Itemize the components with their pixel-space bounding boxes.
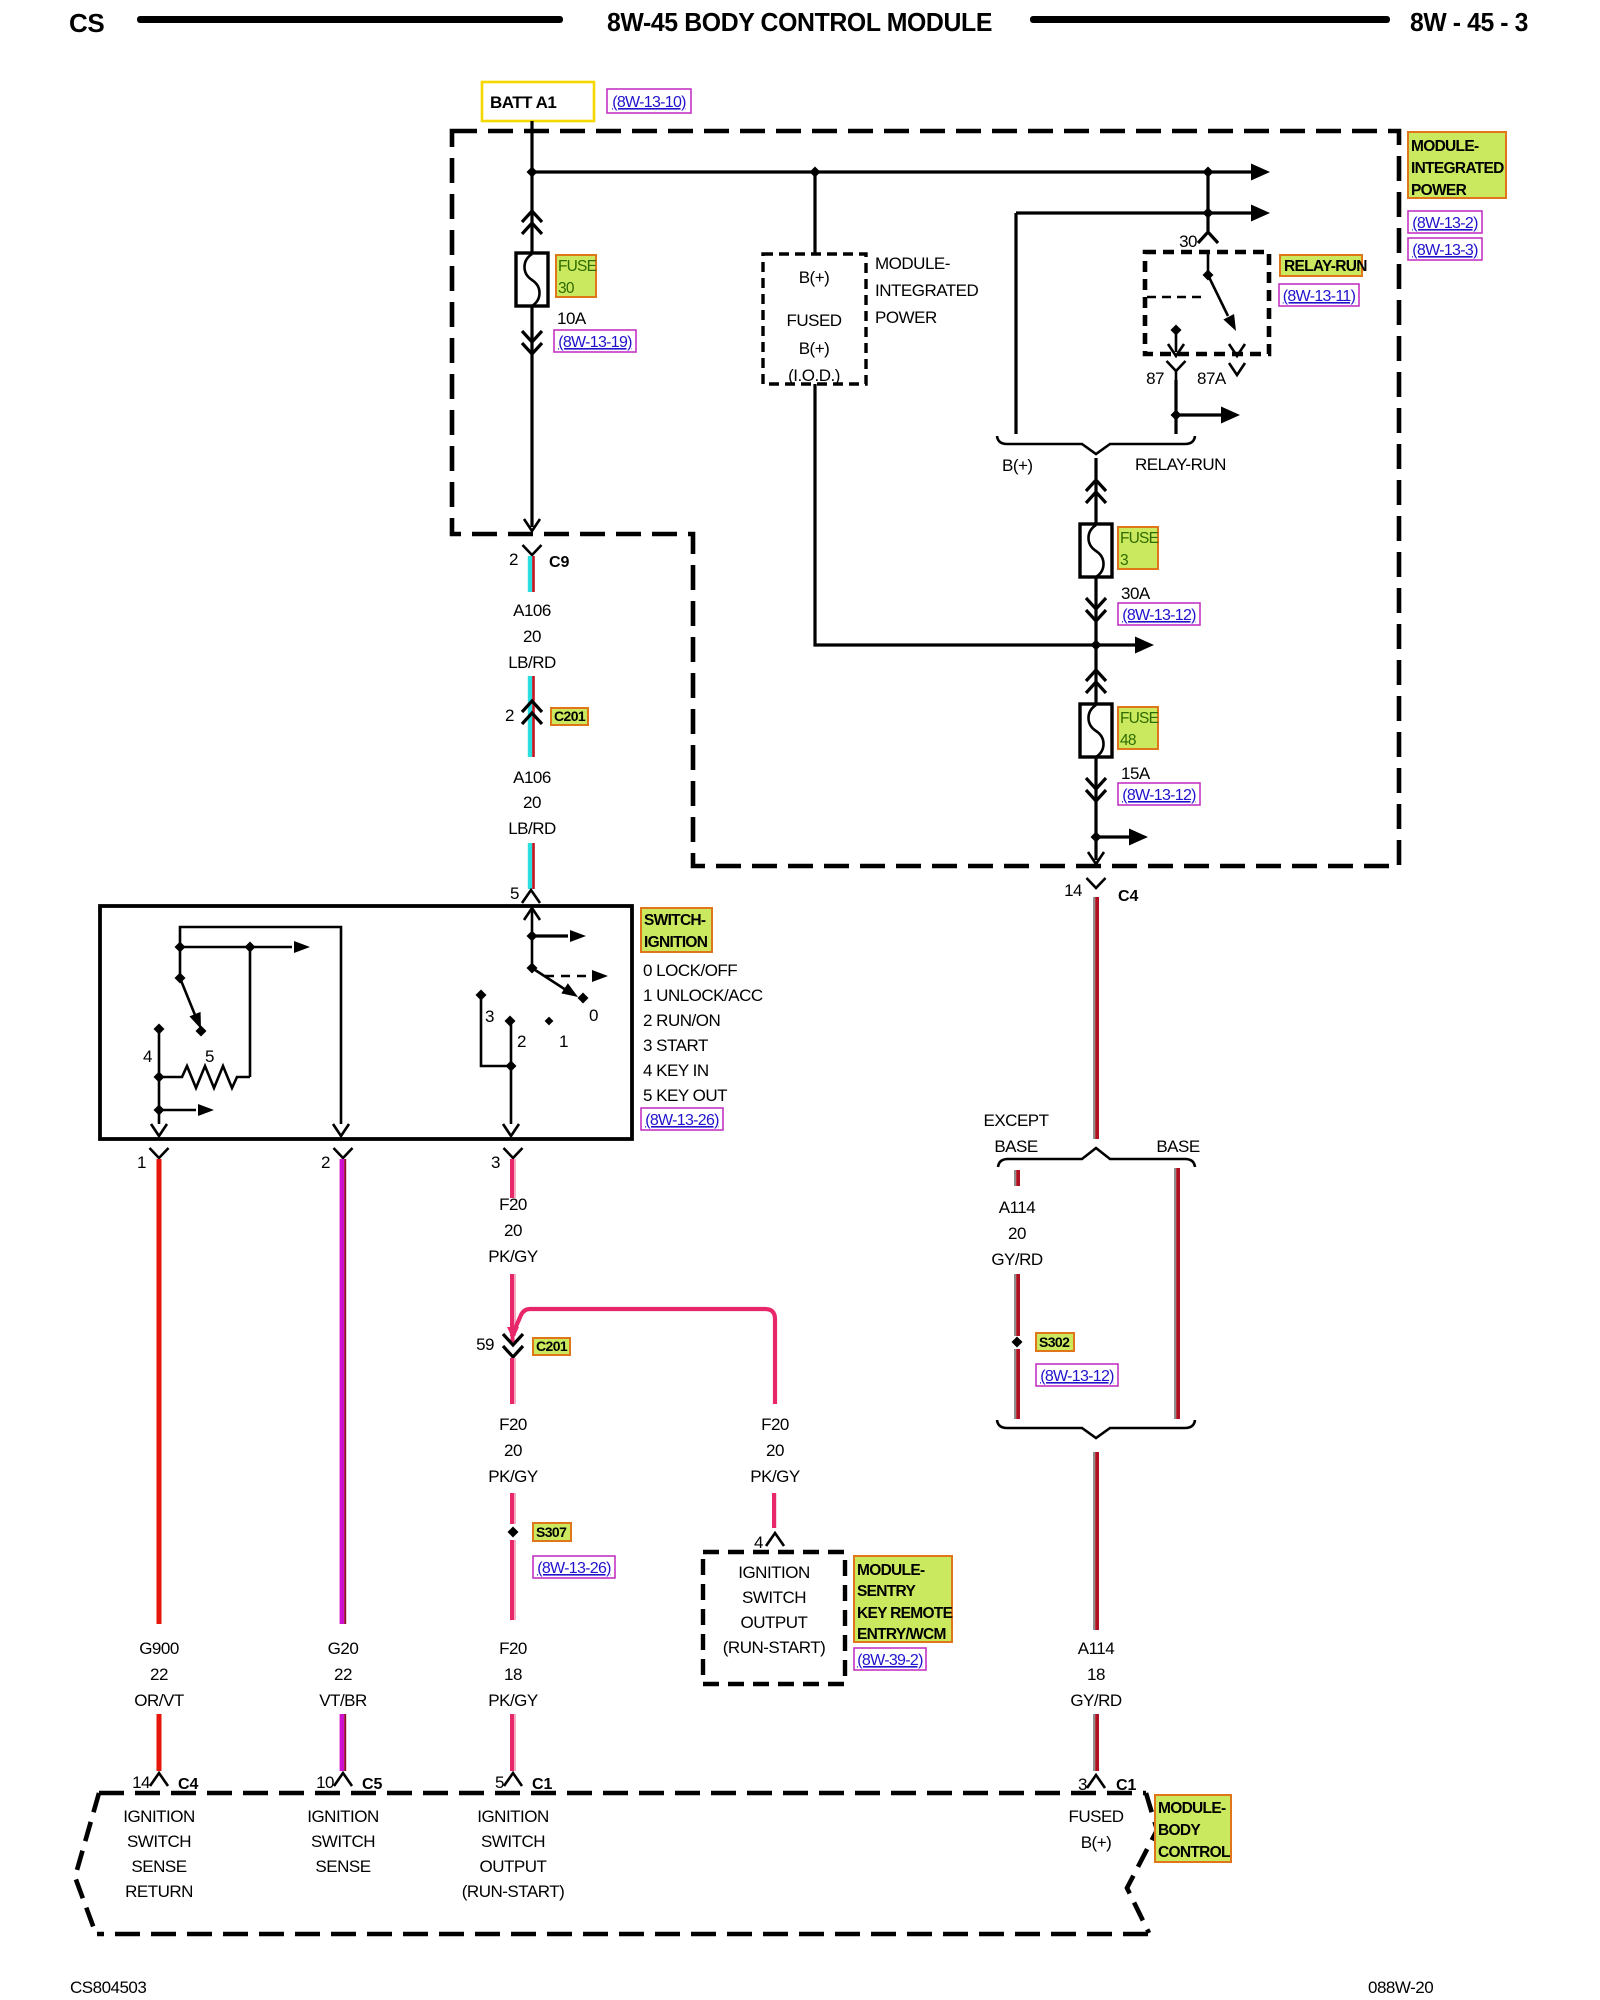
wire label F20 18 PK/GY <box>488 1639 538 1710</box>
wire label A114 20 GY/RD <box>991 1198 1043 1269</box>
switch position 2 <box>505 1016 527 1052</box>
svg-text:22: 22 <box>334 1665 352 1684</box>
svg-text:5: 5 <box>510 884 519 903</box>
svg-text:MODULE-: MODULE- <box>1158 1800 1226 1817</box>
svg-text:BODY: BODY <box>1158 1822 1201 1839</box>
svg-text:(8W-13-12): (8W-13-12) <box>1040 1368 1114 1385</box>
svg-text:PK/GY: PK/GY <box>488 1247 538 1266</box>
svg-text:INTEGRATED: INTEGRATED <box>875 281 979 300</box>
svg-text:10A: 10A <box>557 309 587 328</box>
svg-text:BASE: BASE <box>994 1137 1038 1156</box>
wire G900 OR/VT upper <box>157 1159 162 1624</box>
link 8W-13-12 fuse 3 <box>1118 603 1200 625</box>
svg-text:C4: C4 <box>178 1776 199 1793</box>
svg-text:GY/RD: GY/RD <box>991 1250 1043 1269</box>
module pin caption ignition switch sense <box>307 1807 379 1876</box>
module sentry key box <box>703 1552 845 1684</box>
wire A114 GY/RD except-base seg1 <box>1014 1170 1020 1186</box>
connector C1 pin 5 module <box>495 1773 553 1793</box>
svg-text:MODULE-: MODULE- <box>857 1562 925 1579</box>
ignition switch wiper <box>527 963 589 1004</box>
header label CS <box>69 8 104 38</box>
key-in fixed contact pin 4 <box>154 1024 165 1125</box>
fuse 3 rating 30A <box>1121 584 1151 603</box>
caption module-integrated power <box>875 254 979 327</box>
module pin caption ignition switch sense return <box>123 1807 195 1901</box>
fuse F48 <box>1080 704 1112 757</box>
node label B(+) <box>1002 456 1033 475</box>
svg-text:SENTRY: SENTRY <box>857 1583 916 1600</box>
wire relay pin 30 feed <box>1206 172 1209 232</box>
wire F20 PK/GY seg6 <box>510 1714 516 1771</box>
node label RELAY-RUN <box>1135 455 1226 474</box>
svg-text:14: 14 <box>132 1773 150 1792</box>
header rule right <box>1030 16 1390 23</box>
wire F20 PK/GY seg5 <box>510 1540 516 1620</box>
svg-text:SWITCH: SWITCH <box>311 1832 375 1851</box>
svg-text:2: 2 <box>509 550 518 569</box>
key-in moving contact <box>175 947 207 1037</box>
wire A106 LB/RD segment 1 <box>528 556 535 592</box>
svg-text:RETURN: RETURN <box>125 1882 193 1901</box>
svg-text:3 START: 3 START <box>643 1036 708 1055</box>
svg-text:(8W-13-26): (8W-13-26) <box>645 1112 719 1129</box>
svg-text:C1: C1 <box>1116 1777 1137 1794</box>
link 8W-39-2 <box>854 1648 926 1670</box>
svg-text:A106: A106 <box>513 601 551 620</box>
svg-text:PK/GY: PK/GY <box>488 1467 538 1486</box>
svg-text:22: 22 <box>150 1665 168 1684</box>
svg-text:14: 14 <box>1064 881 1082 900</box>
link 8W-13-26 S307 <box>533 1556 615 1578</box>
link 8W-13-26 switch <box>641 1108 723 1130</box>
connector chevrons below fuse 30 <box>522 331 542 354</box>
pin labels 4 and 5 <box>143 1047 214 1066</box>
svg-text:G20: G20 <box>328 1639 359 1658</box>
switch-ignition box <box>100 906 632 1139</box>
svg-text:1: 1 <box>559 1032 568 1051</box>
svg-text:3: 3 <box>491 1153 500 1172</box>
svg-text:PK/GY: PK/GY <box>488 1691 538 1710</box>
svg-text:1 UNLOCK/ACC: 1 UNLOCK/ACC <box>643 986 763 1005</box>
svg-text:POWER: POWER <box>875 308 937 327</box>
connector chevrons below fuse 48 <box>1086 778 1106 801</box>
svg-text:(8W-13-26): (8W-13-26) <box>537 1560 611 1577</box>
switch pin 2 connector <box>321 1148 353 1172</box>
wire A106 LB/RD segment 3 <box>528 843 535 889</box>
link 8W-13-2 <box>1408 211 1482 233</box>
label MODULE-SENTRY KEY REMOTE ENTRY/WCM <box>854 1556 953 1643</box>
label C201 <box>551 708 588 725</box>
svg-text:18: 18 <box>1087 1665 1105 1684</box>
svg-text:(RUN-START): (RUN-START) <box>462 1882 564 1901</box>
chevron below pin 87A <box>1229 363 1245 375</box>
ignition switch arrow run <box>532 930 586 942</box>
svg-text:C5: C5 <box>362 1776 383 1793</box>
svg-text:(8W-13-11): (8W-13-11) <box>1283 288 1356 305</box>
link 8W-13-12 fuse 48 <box>1118 783 1200 805</box>
wire label G900 22 OR/VT <box>134 1639 184 1710</box>
svg-text:F20: F20 <box>499 1639 527 1658</box>
svg-text:(8W-39-2): (8W-39-2) <box>857 1652 923 1669</box>
relay RELAY-RUN box <box>1145 252 1269 354</box>
label C201 lower <box>533 1338 570 1355</box>
connector chevrons above fuse 30 <box>522 211 542 234</box>
svg-text:48: 48 <box>1120 732 1136 749</box>
svg-text:FUSED: FUSED <box>786 311 841 330</box>
svg-text:30: 30 <box>1179 232 1197 251</box>
svg-text:C201: C201 <box>536 1338 568 1354</box>
svg-text:C1: C1 <box>532 1776 553 1793</box>
svg-text:3: 3 <box>1078 1775 1087 1794</box>
svg-text:C9: C9 <box>549 554 570 571</box>
svg-text:15A: 15A <box>1121 764 1151 783</box>
svg-text:SWITCH: SWITCH <box>127 1832 191 1851</box>
wire label F20 20 PK/GY sentry <box>750 1415 800 1486</box>
connector chevrons above fuse 3 <box>1086 480 1106 503</box>
svg-text:IGNITION: IGNITION <box>307 1807 379 1826</box>
brace sources <box>997 436 1195 454</box>
wire F20 PK/GY seg2 <box>510 1274 516 1336</box>
fuse F3 <box>1080 524 1112 577</box>
svg-text:59: 59 <box>476 1335 494 1354</box>
svg-text:3: 3 <box>1120 552 1128 569</box>
switch pin 1 connector <box>137 1148 169 1172</box>
junction node relay feed <box>1203 208 1214 219</box>
svg-text:FUSE: FUSE <box>558 258 597 275</box>
svg-text:CONTROL: CONTROL <box>1158 1844 1230 1861</box>
svg-text:OUTPUT: OUTPUT <box>741 1613 808 1632</box>
module body control boundary left <box>75 1793 99 1934</box>
splice S307 <box>508 1527 519 1538</box>
switch position 3 <box>476 990 495 1027</box>
svg-text:CS804503: CS804503 <box>70 1978 146 1997</box>
svg-text:EXCEPT: EXCEPT <box>983 1111 1048 1130</box>
ignition switch dashed arrow <box>545 970 608 982</box>
svg-text:F20: F20 <box>499 1195 527 1214</box>
svg-text:CS: CS <box>69 8 104 38</box>
open arrow pin 1 <box>151 1124 167 1136</box>
svg-text:OR/VT: OR/VT <box>134 1691 184 1710</box>
header title <box>607 7 992 37</box>
svg-text:OUTPUT: OUTPUT <box>480 1857 547 1876</box>
svg-text:5: 5 <box>205 1047 214 1066</box>
link 8W-13-10 <box>607 89 691 113</box>
switch pin 3 connector <box>491 1148 523 1172</box>
label MODULE-INTEGRATED POWER <box>1408 132 1506 199</box>
svg-text:S302: S302 <box>1039 1334 1070 1350</box>
svg-text:4 KEY IN: 4 KEY IN <box>643 1061 709 1080</box>
svg-text:BATT A1: BATT A1 <box>490 93 556 112</box>
main power bus wire <box>532 164 1270 181</box>
connector at pin 87 <box>1167 361 1186 380</box>
switch position 0 <box>589 1006 598 1025</box>
svg-text:VT/BR: VT/BR <box>319 1691 367 1710</box>
wire F20 PK/GY sentry seg <box>772 1493 776 1528</box>
svg-text:87: 87 <box>1146 369 1164 388</box>
svg-text:IGNITION: IGNITION <box>477 1807 549 1826</box>
junction node output branch <box>1091 829 1149 846</box>
ignition switch common <box>524 908 540 968</box>
svg-text:B(+): B(+) <box>799 339 830 358</box>
svg-text:2 RUN/ON: 2 RUN/ON <box>643 1011 720 1030</box>
svg-text:20: 20 <box>504 1221 522 1240</box>
wire F20 PK/GY seg4 <box>510 1493 516 1524</box>
fuse 48 rating 15A <box>1121 764 1151 783</box>
svg-text:4: 4 <box>143 1047 152 1066</box>
relay coil line <box>1147 296 1204 299</box>
junction node battery bus <box>527 167 538 178</box>
svg-text:SENSE: SENSE <box>315 1857 370 1876</box>
relay pin 87 <box>1168 325 1184 357</box>
svg-text:A114: A114 <box>1078 1639 1114 1658</box>
svg-text:G900: G900 <box>139 1639 179 1658</box>
svg-text:(8W-13-10): (8W-13-10) <box>612 94 686 111</box>
wire F20 PK/GY seg3 <box>510 1358 516 1404</box>
svg-text:INTEGRATED: INTEGRATED <box>1411 160 1504 177</box>
wire B(+) leg <box>1014 213 1017 434</box>
svg-text:(RUN-START): (RUN-START) <box>723 1638 825 1657</box>
pin label 30 <box>1179 232 1197 251</box>
wire label A106 20 LB/RD <box>508 601 556 672</box>
svg-text:3: 3 <box>485 1007 494 1026</box>
connector C201 pin 2 <box>505 701 542 725</box>
svg-text:20: 20 <box>523 793 541 812</box>
relay common leg <box>1203 252 1214 281</box>
link 8W-13-19 <box>554 330 636 352</box>
connector pin 5 <box>522 890 540 903</box>
svg-text:5: 5 <box>495 1773 504 1792</box>
wire from relay 87 <box>1171 380 1241 434</box>
svg-text:B(+): B(+) <box>1081 1833 1112 1852</box>
connector C4 pin 14 module <box>132 1773 198 1793</box>
svg-text:(8W-13-12): (8W-13-12) <box>1122 787 1196 804</box>
svg-text:MODULE-: MODULE- <box>1411 138 1479 155</box>
switch pin 5 label <box>510 884 519 903</box>
connector C9 pin 2 <box>509 545 570 571</box>
open arrow at C9 <box>524 519 540 531</box>
svg-text:FUSE: FUSE <box>1120 710 1159 727</box>
variant label EXCEPT BASE <box>983 1111 1048 1156</box>
svg-text:C4: C4 <box>1118 888 1139 905</box>
wire A114 GY/RD base seg <box>1174 1168 1180 1419</box>
svg-text:IGNITION: IGNITION <box>123 1807 195 1826</box>
svg-text:20: 20 <box>504 1441 522 1460</box>
connector sentry pin 4 <box>754 1533 784 1552</box>
module body control boundary right <box>1127 1793 1157 1933</box>
switch position legend <box>643 961 763 1105</box>
pink arrow tip at C201 <box>507 1327 519 1342</box>
svg-text:FUSED: FUSED <box>1068 1807 1123 1826</box>
fuse 30 rating 10A <box>557 309 587 328</box>
wire battery feed <box>530 121 533 527</box>
open arrow pin 2 <box>333 1124 349 1136</box>
label FUSE 3 <box>1118 527 1159 569</box>
svg-text:(8W-13-2): (8W-13-2) <box>1412 215 1478 232</box>
svg-text:30A: 30A <box>1121 584 1151 603</box>
svg-text:30: 30 <box>558 280 575 297</box>
svg-text:10: 10 <box>316 1773 334 1792</box>
wire label A106 20 LB/RD lower <box>508 768 556 838</box>
wire from IOD box to fuse leg <box>815 384 1154 654</box>
module body control boundary top <box>99 1791 1146 1796</box>
svg-text:0 LOCK/OFF: 0 LOCK/OFF <box>643 961 737 980</box>
connector C201 pin 59 <box>476 1334 523 1357</box>
header rule left <box>137 16 563 23</box>
wire A114 GY/RD except-base seg3 <box>1014 1349 1020 1419</box>
junction node IOD branch <box>810 167 821 178</box>
start contact wiring <box>481 995 517 1124</box>
svg-text:SWITCH: SWITCH <box>742 1588 806 1607</box>
wire A114 GY/RD top <box>1093 897 1099 1139</box>
svg-text:(8W-13-12): (8W-13-12) <box>1122 607 1196 624</box>
wire label A114 18 GY/RD <box>1070 1639 1122 1710</box>
svg-text:5 KEY OUT: 5 KEY OUT <box>643 1086 727 1105</box>
svg-text:GY/RD: GY/RD <box>1070 1691 1122 1710</box>
wire G20 VT/BR lower <box>340 1714 347 1771</box>
link 8W-13-12 S302 <box>1036 1364 1118 1386</box>
fuse F30 <box>516 253 548 306</box>
svg-text:(8W-13-19): (8W-13-19) <box>558 334 632 351</box>
brace variants bottom <box>997 1420 1195 1438</box>
svg-text:2: 2 <box>321 1153 330 1172</box>
module body control boundary bottom <box>97 1932 1148 1937</box>
wire G900 OR/VT lower <box>157 1714 162 1771</box>
module pin caption ignition switch output <box>462 1807 564 1901</box>
junction node at fuse leg <box>1091 640 1102 651</box>
label FUSE 48 <box>1118 707 1159 749</box>
svg-text:4: 4 <box>754 1533 763 1552</box>
svg-text:A114: A114 <box>999 1198 1035 1217</box>
wire A114 GY/RD lower <box>1093 1452 1099 1630</box>
svg-text:87A: 87A <box>1197 369 1227 388</box>
link 8W-13-11 <box>1279 284 1359 306</box>
label SWITCH-IGNITION <box>641 908 712 952</box>
connector C5 pin 10 module <box>316 1773 382 1793</box>
relay pin 30 chevron <box>1198 232 1218 243</box>
wire label F20 20 PK/GY <box>488 1195 538 1266</box>
svg-text:S307: S307 <box>536 1524 567 1540</box>
wire G20 VT/BR upper <box>340 1159 347 1624</box>
svg-text:B(+): B(+) <box>799 268 830 287</box>
key-in output arrow <box>154 1104 215 1116</box>
wire A114 GY/RD except-base seg2 <box>1014 1274 1020 1336</box>
wire F20 PK/GY seg1 <box>510 1159 516 1198</box>
svg-text:F20: F20 <box>761 1415 789 1434</box>
svg-text:20: 20 <box>1008 1224 1026 1243</box>
relay moving contact <box>1208 275 1241 334</box>
svg-text:20: 20 <box>766 1441 784 1460</box>
svg-text:(8W-13-3): (8W-13-3) <box>1412 242 1478 259</box>
svg-text:POWER: POWER <box>1411 182 1467 199</box>
label RELAY-RUN <box>1280 255 1367 276</box>
svg-text:RELAY-RUN: RELAY-RUN <box>1135 455 1226 474</box>
svg-text:KEY REMOTE: KEY REMOTE <box>857 1605 953 1622</box>
svg-text:2: 2 <box>505 706 514 725</box>
connector C4 pin 14 <box>1064 878 1138 905</box>
svg-text:SWITCH-: SWITCH- <box>644 912 706 929</box>
connector C1 pin 3 module <box>1078 1775 1137 1794</box>
link 8W-13-3 <box>1408 238 1482 260</box>
svg-text:IGNITION: IGNITION <box>644 934 708 951</box>
wire relay-run output <box>1094 458 1097 860</box>
svg-text:MODULE-: MODULE- <box>875 254 950 273</box>
fused B(+) IOD source box <box>763 254 866 385</box>
svg-text:8W - 45 - 3: 8W - 45 - 3 <box>1410 7 1528 37</box>
open arrow at C4 <box>1088 852 1104 864</box>
svg-text:SENSE: SENSE <box>131 1857 186 1876</box>
wire label G20 22 VT/BR <box>319 1639 367 1710</box>
wire label F20 20 PK/GY mid <box>488 1415 538 1486</box>
svg-text:FUSE: FUSE <box>1120 530 1159 547</box>
label S307 <box>533 1523 571 1541</box>
svg-text:LB/RD: LB/RD <box>508 653 556 672</box>
svg-text:ENTRY/WCM: ENTRY/WCM <box>857 1626 946 1643</box>
svg-text:SWITCH: SWITCH <box>481 1832 545 1851</box>
wire A106 LB/RD segment 2 <box>528 676 535 757</box>
resistor riser <box>249 947 252 1077</box>
open arrow pin 3 <box>503 1124 519 1136</box>
svg-text:B(+): B(+) <box>1002 456 1033 475</box>
svg-text:20: 20 <box>523 627 541 646</box>
resistor key-in <box>154 1066 251 1088</box>
svg-text:8W-45 BODY CONTROL MODULE: 8W-45 BODY CONTROL MODULE <box>607 7 992 37</box>
svg-text:PK/GY: PK/GY <box>750 1467 800 1486</box>
svg-text:18: 18 <box>504 1665 522 1684</box>
pin label 87 <box>1146 369 1164 388</box>
svg-text:A106: A106 <box>513 768 551 787</box>
connector chevrons above fuse 48 <box>1086 670 1106 693</box>
relay pin 87A <box>1229 344 1245 356</box>
pin label 87A <box>1197 369 1227 388</box>
wire to fused B(+) IOD <box>813 172 816 254</box>
variant label BASE <box>1156 1137 1200 1156</box>
wire F20 branch to sentry <box>514 1309 775 1404</box>
switch key-in bus <box>180 927 341 1124</box>
svg-text:1: 1 <box>137 1153 146 1172</box>
label FUSE 30 <box>556 255 597 297</box>
svg-text:RELAY-RUN: RELAY-RUN <box>1284 258 1367 275</box>
brace variants top <box>998 1148 1195 1167</box>
svg-text:2: 2 <box>517 1032 526 1051</box>
svg-text:LB/RD: LB/RD <box>508 819 556 838</box>
switch position 1 <box>545 1017 568 1051</box>
header page number <box>1410 7 1528 37</box>
svg-text:F20: F20 <box>499 1415 527 1434</box>
svg-text:IGNITION: IGNITION <box>738 1563 810 1582</box>
junction node relay feed top <box>1203 167 1214 178</box>
wire A114 GY/RD bottom seg <box>1093 1714 1099 1771</box>
module pin caption fused B(+) <box>1068 1807 1123 1852</box>
svg-text:088W-20: 088W-20 <box>1368 1978 1433 1997</box>
label MODULE-BODY CONTROL <box>1155 1795 1231 1862</box>
splice S302 <box>1012 1337 1023 1348</box>
module-integrated power boundary <box>452 131 1399 866</box>
svg-text:BASE: BASE <box>1156 1137 1200 1156</box>
footer part number <box>70 1978 146 1997</box>
svg-text:C201: C201 <box>554 708 586 724</box>
connector chevrons below fuse 3 <box>1086 598 1106 621</box>
bus branch wire to relay 30 <box>1016 205 1270 222</box>
svg-text:(I.O.D.): (I.O.D.) <box>788 366 840 385</box>
svg-text:0: 0 <box>589 1006 598 1025</box>
footer sheet number <box>1368 1978 1433 1997</box>
key-in contact node <box>175 941 311 953</box>
label S302 <box>1036 1333 1074 1351</box>
battery source label BATT A1 <box>482 82 594 121</box>
